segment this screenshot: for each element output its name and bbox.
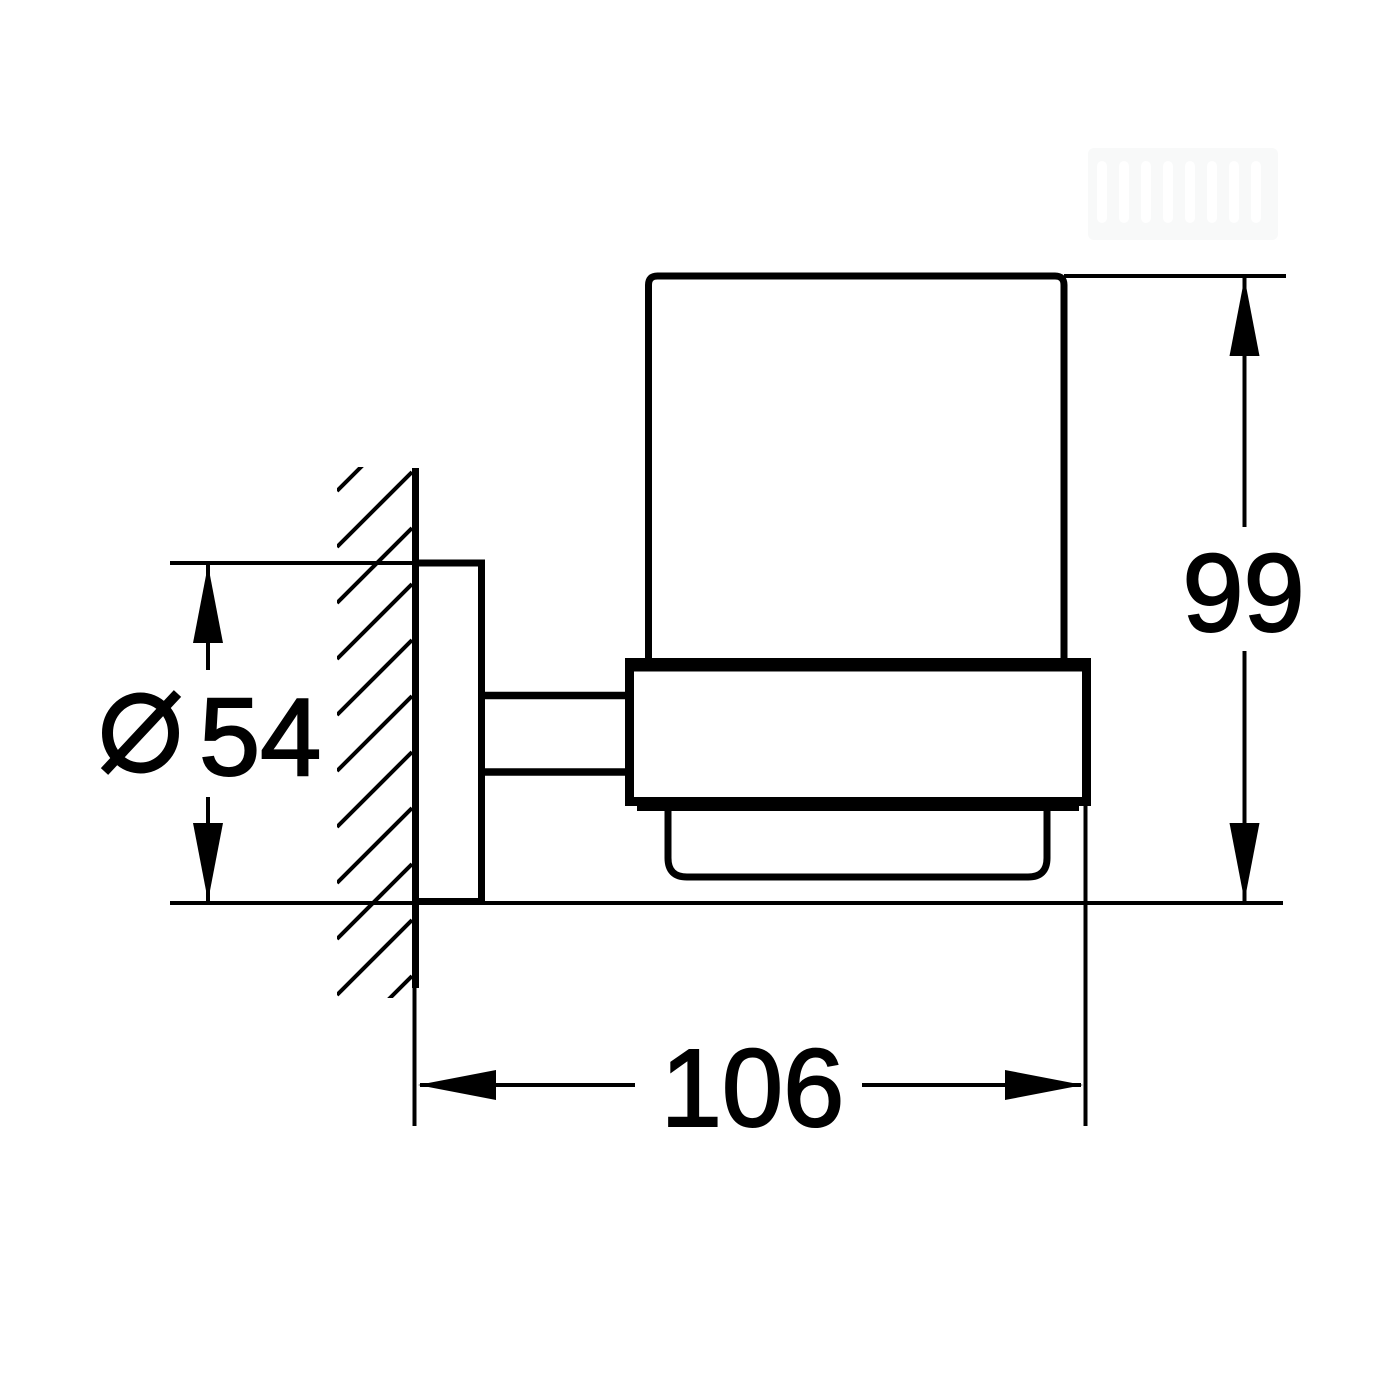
dimension line 106 left (420, 1083, 635, 1087)
wall plate (Ø54) (416, 563, 482, 902)
dimension line Ø54 upper (206, 565, 210, 670)
glass cup (649, 276, 1065, 666)
arrow 99 up (1230, 278, 1260, 356)
holder top band (625, 658, 1091, 672)
extension line bottom (full width) (170, 901, 1283, 905)
holder bottom band (625, 797, 1091, 806)
glass bottom (668, 800, 1047, 877)
label Ø 54 : diameter symbol ellipse (108, 698, 174, 768)
arm top line (481, 692, 634, 700)
extension line holder right (1084, 806, 1088, 1126)
dimension line 99 lower (1243, 651, 1247, 901)
dimension line 106 right (862, 1083, 1081, 1087)
label Ø 54 : diameter symbol slash (105, 694, 178, 772)
arrow 99 down (1230, 823, 1260, 901)
arrow Ø54 down (193, 823, 223, 901)
holder bottom lip (637, 806, 1079, 811)
wall hatching (337, 416, 412, 1051)
extension line plate top (170, 561, 415, 565)
holder right edge (1082, 658, 1091, 806)
extension line top (99) (1064, 274, 1286, 278)
arm bottom line (481, 768, 634, 776)
faint watermark bars (1097, 161, 1261, 223)
faint watermark patch (1088, 148, 1278, 240)
holder left edge (625, 658, 634, 806)
svg-text:99: 99 (1182, 532, 1304, 655)
svg-text:54: 54 (199, 676, 321, 799)
dimension line 99 upper (1243, 278, 1247, 527)
wall line (412, 468, 419, 988)
arrow Ø54 up (193, 565, 223, 643)
dimension line Ø54 lower (206, 797, 210, 901)
wall extension line (413, 988, 417, 1126)
arrow 106 right (1005, 1070, 1083, 1100)
svg-text:106: 106 (661, 1027, 845, 1150)
arrow 106 left (418, 1070, 496, 1100)
